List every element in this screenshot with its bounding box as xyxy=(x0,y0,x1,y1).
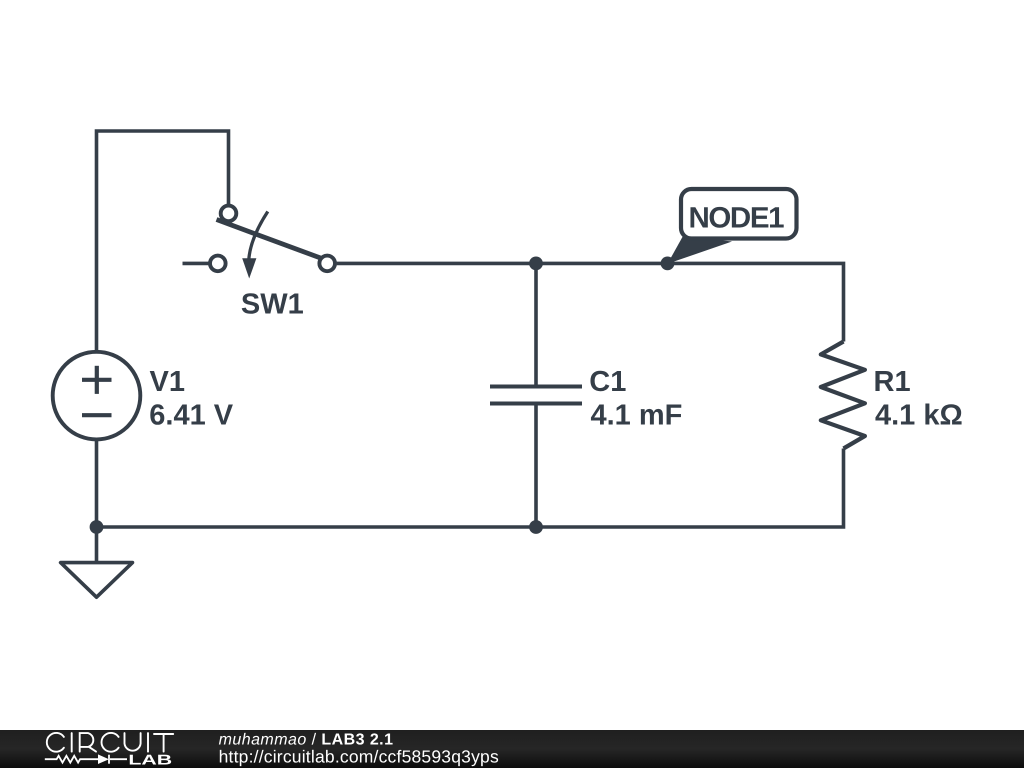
svg-text:4.1 mF: 4.1 mF xyxy=(591,400,683,432)
svg-text:R1: R1 xyxy=(874,366,911,398)
svg-text:C1: C1 xyxy=(589,366,626,398)
svg-text:V1: V1 xyxy=(150,366,185,398)
svg-text:NODE1: NODE1 xyxy=(689,201,785,234)
svg-text:http://circuitlab.com/ccf58593: http://circuitlab.com/ccf58593q3yps xyxy=(219,747,499,767)
svg-text:LAB: LAB xyxy=(128,752,172,768)
svg-text:6.41 V: 6.41 V xyxy=(149,400,233,432)
svg-text:SW1: SW1 xyxy=(241,289,304,321)
svg-text:4.1 kΩ: 4.1 kΩ xyxy=(875,400,963,432)
